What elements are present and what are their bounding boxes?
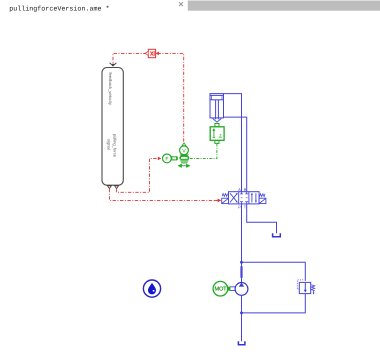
svg-text:B: B [244,187,247,192]
pipe: pump down to tank [241,295,243,341]
pipe: cylinder head side to valve port A [224,94,242,192]
junction node bottom [240,312,243,315]
pipe: cylinder rod side to valve port B [224,117,247,192]
relief valve pilot line (dotted) [297,280,303,289]
valve left spring [222,194,227,197]
tab close button [179,2,183,6]
tab bar gray area [188,1,380,11]
pipe: valve P down to pump [241,204,243,282]
svg-text:pulling_force: pulling_force [113,134,118,158]
tank symbol (T line) [273,233,281,237]
left cell crossed arrows [230,193,237,202]
wire: V sensor up to corner and left to gain box (red signal) [113,53,184,141]
svg-text:F: F [165,156,168,162]
relief valve [299,282,310,293]
output arrow left of box [145,52,148,56]
electric motor MOT [213,281,230,296]
svg-text:feedback_velocity: feedback_velocity [108,72,113,105]
pipe: branch to relief valve top [242,262,306,281]
middle cell closed ports [240,192,248,204]
tank symbol (pump suction) [238,341,245,345]
pipe: valve T to tank [247,204,277,233]
svg-text:MOT: MOT [214,287,227,293]
valve left solenoid [222,198,229,203]
relief valve adjust arrow [313,291,315,295]
valve right spring [260,194,265,197]
wire: displacement box to mass (green signal) [190,144,217,159]
arrowhead into F sensor [158,157,161,161]
wire: block port2 to force sensor (red signal) [117,158,157,192]
wire: block port1 to valve solenoid (red signal) [109,189,216,201]
hydraulic cylinder [210,94,224,123]
input arrowhead right of box [156,52,159,56]
valve right solenoid [259,198,266,203]
junction node top [240,261,243,264]
displacement transducer box [210,124,224,144]
pump shaft [230,287,235,291]
svg-text:A: A [238,187,241,192]
displacement double arrow under mass [179,164,190,167]
block bottom output ports [108,186,119,189]
svg-text:P: P [238,204,241,209]
arrowhead into valve [218,199,222,203]
component block: control supercomponent [102,68,123,186]
directional valve 4/3 [229,192,260,204]
right cell parallel arrows [251,193,253,202]
pump [235,283,248,296]
svg-text:pullingforceVersion.ame *: pullingforceVersion.ame * [9,6,109,14]
mass element [176,155,189,168]
relief valve spring [311,285,314,291]
force sensor F [163,154,177,163]
rod end arrow [213,118,222,122]
block top input port arrow [110,63,117,66]
velocity sensor V [180,143,189,155]
fluid properties icon (drop) [143,280,160,297]
valve port labels [238,187,247,209]
connector link F to mass [172,157,177,160]
svg-text:V: V [182,148,186,154]
pump outlet arrow [240,266,242,278]
pipe: relief bottom to pump return [242,294,306,313]
gain box (red signal block) [145,49,159,57]
svg-text:signal: signal [107,139,112,150]
